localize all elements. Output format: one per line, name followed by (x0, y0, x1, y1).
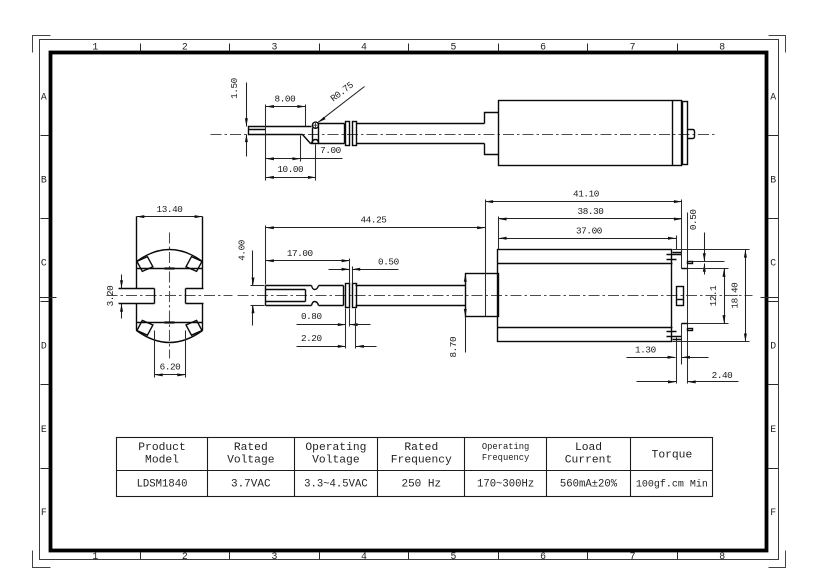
terminal tab (top view) (688, 130, 695, 139)
bearing bushing (front view) (466, 274, 499, 317)
svg-text:3: 3 (271, 42, 277, 53)
svg-text:D: D (41, 341, 47, 352)
svg-text:Rated: Rated (404, 442, 438, 454)
end view bottom arc (137, 331, 203, 343)
zone tick marks left edge (41, 136, 49, 469)
dim 3.20 (105, 275, 123, 319)
svg-text:250 Hz: 250 Hz (401, 479, 441, 491)
inner thick border frame (51, 53, 767, 551)
svg-text:E: E (770, 424, 776, 435)
bearing boss on end cap (677, 287, 684, 306)
svg-text:3.3~4.5VAC: 3.3~4.5VAC (304, 479, 368, 491)
svg-text:8: 8 (719, 551, 725, 562)
svg-text:1: 1 (92, 551, 98, 562)
svg-text:7.00: 7.00 (320, 145, 341, 156)
svg-text:3.7VAC: 3.7VAC (231, 479, 271, 491)
svg-text:4.00: 4.00 (236, 240, 247, 261)
zone tick marks right edge (769, 136, 779, 469)
zone numbers top (92, 42, 725, 53)
corner trim mark bottom-left (33, 551, 51, 568)
outer border frame (40, 40, 779, 560)
svg-text:0.50: 0.50 (688, 209, 699, 230)
dim 41.10 (485, 189, 682, 204)
shaft flat lines (front view) (266, 290, 306, 302)
svg-text:560mA±20%: 560mA±20% (560, 479, 618, 491)
table grid (117, 438, 713, 497)
svg-text:Operating: Operating (305, 442, 366, 454)
svg-text:Load: Load (575, 442, 602, 454)
table values row (137, 479, 708, 491)
svg-text:2: 2 (182, 551, 188, 562)
svg-text:LDSM1840: LDSM1840 (137, 479, 188, 491)
svg-text:13.40: 13.40 (157, 204, 183, 215)
bushing step (top view) (485, 113, 499, 155)
svg-text:2.20: 2.20 (301, 333, 322, 344)
svg-text:Model: Model (145, 454, 179, 466)
table headers (138, 442, 692, 466)
svg-text:8.00: 8.00 (275, 94, 296, 105)
svg-text:A: A (770, 92, 776, 103)
dim 1.30 (627, 344, 709, 359)
svg-text:18.40: 18.40 (730, 283, 741, 309)
dim 8.70 (448, 274, 467, 358)
dim 1.50 (229, 78, 248, 156)
dim 2.40 (637, 370, 739, 384)
svg-text:5: 5 (451, 551, 457, 562)
end view top arc (137, 250, 203, 262)
magnet diamond top-right (186, 257, 202, 272)
zone tick marks top edge (141, 44, 678, 52)
magnet diamond bottom-right (186, 320, 202, 335)
svg-text:0.50: 0.50 (378, 256, 399, 267)
svg-text:6: 6 (540, 42, 546, 53)
svg-text:3.20: 3.20 (105, 286, 116, 307)
shaft flat (top view bar) (249, 127, 312, 144)
magnet diamond bottom-left (137, 320, 153, 335)
end cap face line (681, 200, 683, 365)
end view horizontal centerline (107, 295, 233, 297)
dim 38.30 (499, 206, 682, 250)
corner trim mark top-right (769, 36, 786, 53)
dim 17.00 (266, 248, 350, 262)
svg-text:C: C (770, 258, 776, 269)
svg-text:8.70: 8.70 (448, 337, 459, 358)
svg-text:6: 6 (540, 551, 546, 562)
svg-text:7: 7 (630, 42, 636, 53)
zone numbers bottom (92, 551, 725, 562)
svg-text:Rated: Rated (234, 442, 268, 454)
dim 18.40 (673, 250, 750, 342)
dim 37.00 (499, 225, 677, 240)
svg-text:F: F (41, 507, 47, 518)
svg-text:170~300Hz: 170~300Hz (477, 479, 534, 491)
frame center mark right (761, 297, 779, 299)
shaft body (top view) (311, 124, 485, 144)
svg-text:6.20: 6.20 (160, 362, 181, 373)
end view top chord line (137, 268, 203, 270)
dim 44.25 (266, 200, 486, 317)
svg-text:C: C (41, 258, 47, 269)
svg-text:3: 3 (271, 551, 277, 562)
svg-text:B: B (41, 175, 47, 186)
terminal tower edges (673, 253, 688, 340)
end cap (top view) (683, 102, 688, 165)
svg-text:Voltage: Voltage (227, 454, 275, 466)
svg-text:4: 4 (361, 42, 367, 53)
side notch left (119, 289, 155, 304)
svg-text:10.00: 10.00 (277, 164, 303, 175)
terminal tab top (688, 262, 693, 264)
dim 10.00 (266, 145, 316, 181)
svg-text:Current: Current (565, 454, 612, 466)
svg-text:Product: Product (138, 442, 185, 454)
terminal tab bottom (688, 329, 693, 331)
svg-text:E: E (41, 424, 47, 435)
terminal face line (687, 213, 689, 384)
end view bottom chord line (137, 322, 203, 324)
can crimp line (top view) (672, 101, 674, 166)
svg-text:1.50: 1.50 (229, 78, 240, 99)
svg-text:Torque: Torque (652, 450, 693, 462)
svg-text:Operating: Operating (482, 442, 530, 452)
svg-text:5: 5 (451, 42, 457, 53)
dim 0.50 terminal thickness (688, 209, 706, 274)
svg-text:Frequency: Frequency (482, 453, 530, 463)
svg-text:A: A (41, 92, 47, 103)
terminal top edge extension (693, 261, 725, 263)
zone letters right (770, 92, 776, 518)
frame center mark left (40, 297, 57, 299)
svg-text:17.00: 17.00 (287, 248, 313, 259)
dim 6.20 (155, 331, 186, 378)
zone letters left (41, 92, 47, 518)
main view centerline (238, 295, 753, 297)
shaft rear section (356, 286, 466, 306)
shaft front section (266, 286, 344, 306)
dim 8.00 (266, 94, 306, 181)
svg-text:100gf.cm Min: 100gf.cm Min (636, 479, 708, 491)
svg-text:Frequency: Frequency (391, 454, 452, 466)
washer A (front view) (346, 284, 350, 308)
dim 7.00 (266, 136, 343, 162)
magnet diamond top-left (137, 257, 153, 272)
svg-text:Voltage: Voltage (312, 454, 360, 466)
small header Operating Frequency (482, 442, 530, 463)
svg-text:7: 7 (630, 551, 636, 562)
dim 4.00 (236, 240, 264, 325)
end view body sides (137, 217, 203, 331)
svg-text:38.30: 38.30 (578, 206, 604, 217)
crimp ticks at right end (667, 255, 682, 337)
dim 13.40 (136, 204, 202, 218)
dim 0.80 (297, 309, 371, 349)
extension line at can flange (676, 236, 678, 384)
svg-text:D: D (770, 341, 776, 352)
center dash marks on chords (165, 269, 175, 323)
can crimp lines (498, 264, 673, 328)
end view vertical centerline (169, 233, 171, 359)
svg-text:F: F (770, 507, 776, 518)
top view centerline (211, 134, 717, 136)
side notch right (186, 289, 204, 304)
motor can (front view) (498, 250, 672, 342)
radius leader R0.75 (313, 80, 364, 128)
dim 12.1 (688, 269, 729, 324)
svg-text:4: 4 (361, 551, 367, 562)
corner trim mark top-left (33, 36, 51, 53)
svg-text:0.80: 0.80 (301, 311, 322, 322)
retaining ring A (top view) (346, 122, 350, 146)
shaft groove (top view) R0.75 (312, 122, 319, 143)
svg-text:44.25: 44.25 (361, 215, 387, 226)
zone tick marks bottom edge (141, 553, 678, 560)
corner trim mark bottom-right (769, 551, 786, 568)
dim 0.50 washer gap (329, 256, 399, 283)
svg-text:12.1: 12.1 (708, 285, 719, 307)
shaft groove (front view) (312, 286, 319, 306)
svg-text:2.40: 2.40 (712, 370, 733, 381)
svg-text:2: 2 (182, 42, 188, 53)
retaining ring B (top view) (353, 122, 357, 146)
svg-text:1.30: 1.30 (635, 344, 656, 355)
motor can (top view) (499, 101, 682, 166)
svg-text:1: 1 (92, 42, 98, 53)
svg-text:37.00: 37.00 (576, 225, 602, 236)
dim 2.20 (297, 309, 377, 349)
svg-text:41.10: 41.10 (573, 189, 599, 200)
svg-text:8: 8 (719, 42, 725, 53)
washer B (front view) (353, 284, 357, 308)
svg-text:B: B (770, 175, 776, 186)
